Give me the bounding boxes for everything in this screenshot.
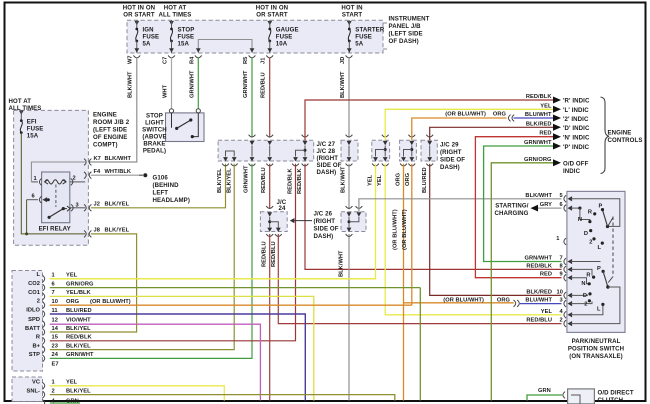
PNP pin 10 BLK/RED [526, 289, 572, 298]
svg-text:RED: RED [539, 131, 551, 137]
label HOT AT ALL TIMES (left) [9, 98, 42, 112]
svg-text:DASH): DASH) [440, 164, 460, 171]
svg-text:12: 12 [52, 318, 58, 324]
svg-text:FUSE: FUSE [178, 34, 195, 41]
svg-text:FUSE: FUSE [143, 34, 160, 41]
wire BLK/RED to D indicator [430, 127, 553, 140]
ECM pin R 15 RED/BLK [36, 335, 93, 345]
svg-text:IDLO: IDLO [26, 307, 40, 313]
internal bridge wire inside J/B [196, 40, 255, 53]
svg-text:STOP: STOP [178, 27, 195, 34]
svg-text:BLK/WHT: BLK/WHT [105, 156, 132, 162]
svg-text:J/C 26: J/C 26 [314, 211, 333, 218]
PNP upper 2 contact [589, 237, 595, 245]
svg-text:WHT/BLK: WHT/BLK [105, 169, 132, 175]
svg-text:11: 11 [52, 308, 58, 314]
arrow O/D OFF INDIC [553, 159, 589, 175]
svg-text:L: L [597, 245, 601, 251]
svg-text:GRN/WHT: GRN/WHT [244, 165, 250, 193]
inline connector (( [508, 115, 514, 122]
label R4 GRN/WHT (vertical) [190, 56, 196, 98]
wire BLK/WHT from starter fuse [348, 58, 350, 138]
svg-text:STARTING/: STARTING/ [495, 202, 528, 209]
PNP internal lower: pin10 to D contact [571, 292, 592, 299]
svg-text:'2' INDIC: '2' INDIC [563, 116, 589, 123]
PNP pin 8 RED/BLK [526, 263, 572, 272]
PNP internal lower: pin9 to N contact [571, 278, 591, 288]
label J8 BLK/YEL [94, 228, 130, 234]
svg-text:N: N [578, 217, 582, 223]
PNP upper lever to P contact [599, 204, 608, 227]
wire BLU/WHT to 2 indicator [514, 117, 554, 119]
svg-text:CO2: CO2 [28, 281, 40, 287]
stop light switch contacts and lever [172, 113, 199, 138]
PNP pin 9 RED [540, 272, 572, 281]
labels RED/BLK RED/BLK (vertical) [288, 168, 304, 194]
svg-text:10: 10 [52, 299, 58, 305]
labels BLK/YEL BLK/YEL (vertical) [217, 168, 233, 193]
svg-text:OF DASH): OF DASH) [389, 38, 419, 45]
svg-text:C7: C7 [163, 57, 169, 64]
svg-text:6: 6 [52, 281, 55, 287]
PNP pin 1 [556, 236, 566, 245]
svg-text:5A: 5A [143, 41, 151, 48]
svg-text:RED/BLU: RED/BLU [262, 241, 268, 267]
label (OR BLU/WHT) ORG with )) connector [443, 297, 519, 306]
label BLK/RED [526, 121, 552, 127]
svg-text:CLUTCH: CLUTCH [598, 397, 624, 404]
wire ORG pair below box D [404, 164, 514, 401]
wire BLK/WHT branch from J/C 26 to PNP pin 5 [359, 199, 562, 212]
ECM pin CO2 6 GRN/ORG [28, 281, 420, 291]
svg-text:RED/BLK: RED/BLK [526, 263, 552, 269]
svg-text:BLK/YEL: BLK/YEL [66, 326, 91, 332]
label W7 BLK/WHT (vertical) [128, 55, 134, 98]
relay pin 6 line [27, 193, 50, 203]
svg-text:D: D [584, 231, 588, 237]
wire BLU/RED below J/C 29 to pin 10 [430, 164, 562, 296]
wire BLK/WHT through J/C 26 down off-page [348, 164, 350, 401]
wire GRN/ORG to O/D OFF indicator [491, 163, 553, 401]
label J1 RED/BLU (vertical) [261, 58, 267, 98]
ECM pin CO1 7 YEL/BLK [28, 290, 314, 401]
svg-text:2: 2 [37, 299, 40, 305]
label J/C 24 [277, 199, 287, 212]
svg-text:1: 1 [52, 380, 55, 386]
svg-text:RED/BLK: RED/BLK [526, 94, 552, 100]
wire BLU/WHT into pin 3 [520, 303, 562, 305]
arrow N INDIC [553, 133, 590, 141]
svg-text:J2: J2 [94, 201, 100, 207]
svg-text:EFI RELAY: EFI RELAY [39, 225, 71, 232]
junction box B (BLK/WHT pass) [341, 135, 358, 166]
svg-text:BLK/WHT: BLK/WHT [340, 71, 346, 98]
wire F4 WHT/BLK to ground G106 [91, 173, 148, 177]
svg-text:W7: W7 [128, 55, 134, 64]
label R5 GRN/WHT (vertical) [243, 57, 249, 98]
J/B2 exit connectors K7 F4 J2 J8 [84, 159, 91, 238]
labels (OR BLU/WHT) x2 (vertical) [393, 209, 409, 250]
svg-text:J/C 27: J/C 27 [317, 141, 336, 148]
label K7 BLK/WHT [94, 156, 132, 162]
wire J8 BLK/YEL to ECM BATT [50, 234, 137, 332]
PNP upper D contact [584, 229, 592, 237]
relay pin 3 [70, 202, 85, 211]
svg-text:(RIGHT: (RIGHT [440, 149, 462, 156]
svg-text:PARK/NEUTRAL: PARK/NEUTRAL [572, 338, 621, 345]
svg-text:RED/BLU: RED/BLU [261, 167, 267, 193]
svg-text:IGN: IGN [143, 27, 154, 34]
wire RED/BLU box A to J/C 24 [269, 164, 271, 209]
svg-text:LEFT: LEFT [153, 190, 169, 197]
svg-text:BLK/WHT: BLK/WHT [128, 71, 134, 98]
svg-text:6: 6 [560, 202, 563, 208]
ECM connector box 1 [12, 271, 43, 372]
svg-text:GRN/ORG: GRN/ORG [524, 157, 552, 163]
label HOT IN ON OR START (left) [123, 5, 155, 19]
PNP pin 4 YEL [541, 309, 572, 318]
label JD BLK/WHT (vertical) [340, 57, 346, 98]
junction box J/C 29 [421, 135, 437, 166]
ECM pin VC 1 YEL [32, 380, 224, 401]
ECM pin IDLO 11 BLU/RED [26, 307, 305, 400]
J/B exit connectors [133, 55, 352, 57]
label BLU/WHT [525, 112, 552, 118]
wire ORG to 2 indicator [412, 118, 507, 140]
J/C 27/28 internal junction dot to RED/BLK pair [296, 149, 307, 157]
wire GRN to O/D direct clutch [527, 388, 572, 400]
wire GRN/WHT R5 down to J/C 27-28 [251, 58, 253, 138]
svg-text:BLU/WHT: BLU/WHT [525, 112, 552, 118]
ECM pin SNL- 2 BLK/YEL [27, 388, 395, 400]
label YEL [540, 103, 552, 109]
label J/C 29 (RIGHT SIDE OF DASH) [440, 142, 465, 172]
svg-text:HEADLAMP): HEADLAMP) [153, 197, 190, 204]
svg-text:FUSE: FUSE [276, 34, 293, 41]
ECM pin STP 24 GRN/WHT [29, 352, 94, 362]
fuse IGN 5A [134, 20, 159, 53]
svg-text:O/D OFF: O/D OFF [563, 160, 589, 167]
svg-text:R4: R4 [190, 56, 196, 64]
svg-text:7: 7 [560, 256, 563, 262]
PNP internal upper: pin6 to N contact [571, 207, 592, 224]
PNP mechanical dashed link [608, 217, 613, 283]
svg-text:J8: J8 [94, 228, 100, 234]
svg-text:BRAKE: BRAKE [143, 140, 165, 147]
svg-text:ENGINE: ENGINE [608, 130, 632, 137]
svg-text:(OR BLU/WHT): (OR BLU/WHT) [90, 299, 131, 305]
svg-text:COMPT): COMPT) [93, 142, 118, 149]
svg-text:(RIGHT: (RIGHT [317, 155, 339, 162]
label RED/BLU (vertical) [261, 167, 267, 193]
svg-text:GRN: GRN [538, 388, 551, 394]
wire J2 BLK/YEL to junction box A [91, 164, 226, 208]
PNP pin 3 BLU/WHT [525, 298, 572, 307]
svg-text:BLK/WHT: BLK/WHT [339, 250, 345, 277]
junction box J/C 27 J/C 28 [218, 140, 314, 161]
label (OR BLU/WHT) ORG [445, 112, 506, 118]
labels ORG ORG (vertical) [396, 172, 412, 186]
svg-text:HOT AT: HOT AT [164, 5, 187, 12]
svg-text:R: R [588, 210, 592, 216]
svg-text:(LEFT SIDE: (LEFT SIDE [389, 31, 423, 38]
svg-text:GRY: GRY [540, 202, 552, 208]
label J2 BLK/YEL [94, 201, 130, 207]
J/C 27/28 internal bridge BLK/YEL [226, 151, 235, 157]
svg-text:'R' INDIC: 'R' INDIC [563, 98, 590, 105]
label ENGINE ROOM J/B 2 (LEFT SIDE OF ENGINE COMPT) [93, 112, 130, 149]
svg-text:WHT: WHT [163, 84, 169, 98]
svg-text:BLU/WHT: BLU/WHT [525, 298, 552, 304]
svg-text:5: 5 [560, 193, 563, 199]
label RED [539, 131, 551, 137]
svg-text:14: 14 [52, 326, 59, 332]
svg-text:BATT: BATT [25, 326, 40, 332]
svg-text:'N' INDIC: 'N' INDIC [563, 135, 590, 142]
svg-text:R: R [36, 335, 40, 341]
svg-text:GRN/ORG: GRN/ORG [66, 281, 94, 287]
stop light switch box [166, 113, 205, 142]
svg-text:BLK/YEL: BLK/YEL [105, 201, 130, 207]
label J/C 27 J/C 28 (RIGHT SIDE OF DASH) [317, 141, 342, 176]
ECM label E2 [52, 361, 59, 367]
svg-text:SIDE OF: SIDE OF [440, 157, 465, 164]
svg-text:7: 7 [52, 290, 55, 296]
svg-text:(OR BLU/WHT): (OR BLU/WHT) [445, 112, 486, 118]
label HOT IN ON OR START (middle) [256, 5, 288, 19]
wire RED/BLK pair below box A [50, 164, 562, 341]
J/C 27/28 internal pass wires [252, 146, 305, 157]
svg-text:YEL: YEL [66, 273, 78, 279]
svg-text:ROOM J/B 2: ROOM J/B 2 [93, 119, 130, 126]
svg-text:DASH): DASH) [317, 169, 337, 176]
svg-text:15A: 15A [178, 41, 190, 48]
relay mechanical dashed link [55, 185, 57, 208]
svg-text:CONTROLS: CONTROLS [608, 137, 643, 144]
svg-text:CHARGING: CHARGING [495, 210, 529, 217]
svg-text:YEL: YEL [368, 174, 374, 186]
svg-text:RED/BLK: RED/BLK [288, 168, 294, 194]
engine room J/B 2 box [14, 110, 89, 245]
svg-text:CO1: CO1 [28, 290, 40, 296]
labels BLK/WHT (vertical, above and below J/C26) [339, 166, 347, 277]
wire GRN/WHT to P indicator [484, 146, 562, 262]
svg-text:GRN/WHT: GRN/WHT [524, 256, 552, 262]
label INSTRUMENT PANEL J/B (LEFT SIDE OF DASH) [383, 16, 430, 50]
svg-text:8: 8 [560, 263, 563, 269]
svg-text:P: P [599, 204, 603, 210]
svg-text:YEL: YEL [540, 103, 552, 109]
svg-text:BLK/WHT: BLK/WHT [341, 166, 347, 193]
PNP pin 7 GRN/WHT [524, 256, 572, 265]
svg-text:VC: VC [32, 380, 40, 386]
label C7 WHT (vertical) [163, 57, 169, 98]
svg-text:DASH): DASH) [314, 233, 334, 240]
EFI relay box [39, 172, 71, 232]
svg-text:INSTRUMENT: INSTRUMENT [389, 16, 430, 23]
svg-text:1: 1 [556, 236, 559, 242]
junction box D (ORG) [400, 135, 417, 166]
svg-text:10: 10 [557, 289, 563, 295]
svg-text:GAUGE: GAUGE [276, 27, 299, 34]
PNP upper R contact [588, 210, 596, 216]
relay pin 2 [70, 176, 85, 186]
svg-text:ORG: ORG [493, 112, 507, 118]
label HOT AT ALL TIMES [159, 5, 192, 19]
svg-text:(OR BLU/WHT): (OR BLU/WHT) [443, 297, 484, 303]
svg-text:OR START: OR START [256, 12, 288, 19]
PNP internal upper: pin5 to lever pivot [571, 199, 620, 228]
svg-text:STP: STP [29, 352, 40, 358]
svg-text:RED/BLU: RED/BLU [526, 318, 552, 324]
svg-text:HOT IN ON: HOT IN ON [123, 5, 155, 12]
svg-text:HOT AT: HOT AT [9, 98, 32, 105]
svg-text:ALL TIMES: ALL TIMES [159, 12, 192, 19]
svg-text:1: 1 [52, 273, 55, 279]
svg-text:(ABOVE: (ABOVE [142, 133, 166, 140]
label F4 WHT/BLK [94, 169, 132, 175]
svg-text:L: L [597, 306, 601, 312]
ECM pin L 1 YEL [36, 272, 375, 282]
svg-text:SNL-: SNL- [27, 388, 41, 394]
svg-text:LIGHT: LIGHT [145, 119, 164, 126]
svg-text:J/C 29: J/C 29 [440, 142, 459, 149]
svg-text:N: N [581, 281, 585, 287]
PNP pin 5 BLK/WHT [525, 193, 572, 202]
arrow L INDIC [553, 106, 589, 114]
svg-text:(BEHIND: (BEHIND [153, 182, 180, 189]
wire GRY starting/charging stub [531, 205, 562, 212]
svg-text:23: 23 [52, 343, 58, 349]
svg-text:2: 2 [52, 388, 55, 394]
arrow R INDIC [553, 97, 590, 105]
svg-text:HOT IN: HOT IN [341, 5, 362, 12]
relay pin 1 [31, 176, 41, 186]
svg-text:J1: J1 [261, 58, 267, 64]
wire GRN/WHT below box A down to ECM STP [50, 164, 252, 359]
wire K7 BLK/WHT inside J/B2 to relay pin1 [31, 162, 86, 182]
fuse STOP 15A [169, 20, 194, 53]
wire YEL pair below box C [50, 164, 562, 315]
ECM connector box 2 [12, 377, 43, 402]
svg-text:J/C 28: J/C 28 [317, 148, 336, 155]
svg-text:E7: E7 [52, 361, 59, 367]
svg-text:P: P [597, 266, 601, 272]
svg-text:OF ENGINE: OF ENGINE [93, 134, 127, 141]
relay pin 6 wire to EFI fuse line [25, 200, 28, 236]
svg-text:BLK/WHT: BLK/WHT [525, 193, 552, 199]
svg-text:BLK/RED: BLK/RED [526, 289, 552, 295]
PNP internal lower: pin8 to R contact [571, 269, 595, 278]
svg-text:2: 2 [560, 318, 563, 324]
svg-text:ENGINE: ENGINE [93, 112, 117, 119]
wire RED to N indicator [475, 137, 561, 278]
svg-text:RED/BLK: RED/BLK [297, 168, 303, 194]
svg-text:1: 1 [34, 176, 37, 182]
svg-text:(OR BLU/WHT): (OR BLU/WHT) [402, 209, 408, 250]
svg-text:GRN/WHT: GRN/WHT [243, 70, 249, 98]
fuse STARTER 5A [347, 20, 385, 53]
svg-text:3: 3 [560, 298, 563, 304]
park/neutral position switch box [567, 191, 625, 332]
svg-text:SWITCH: SWITCH [142, 126, 167, 133]
wire EFI fuse down to J8 row (BLK/YEL inside J/B) [21, 133, 85, 234]
svg-text:STOP: STOP [146, 112, 163, 119]
svg-text:ORG: ORG [66, 299, 80, 305]
J/C 27/28 bottom terminals [222, 157, 308, 166]
PNP internal lower: pin4 to L contact [571, 303, 605, 315]
junction box J/C 26 [341, 206, 366, 236]
J/C 27/28 top terminals [249, 135, 309, 146]
svg-text:YEL: YEL [66, 380, 78, 386]
svg-text:YEL: YEL [541, 309, 553, 315]
svg-text:PEDAL): PEDAL) [143, 147, 166, 154]
fuse GAUGE 10A [267, 20, 298, 53]
svg-text:SIDE OF: SIDE OF [314, 226, 339, 233]
label GRN/ORG [524, 157, 552, 163]
label STOP LIGHT SWITCH (ABOVE BRAKE PEDAL) [142, 112, 167, 154]
svg-text:ORG: ORG [497, 297, 511, 303]
svg-text:BLK/YEL: BLK/YEL [105, 228, 130, 234]
svg-text:POSITION SWITCH: POSITION SWITCH [568, 345, 624, 352]
svg-text:BLU/RED: BLU/RED [422, 167, 428, 193]
arrow P INDIC [553, 143, 590, 151]
engine controls brace [601, 97, 610, 174]
svg-text:(ON TRANSAXLE): (ON TRANSAXLE) [569, 353, 623, 360]
svg-text:'P' INDIC: 'P' INDIC [563, 144, 590, 151]
O/D direct clutch box [568, 389, 595, 404]
svg-text:EFI: EFI [27, 118, 37, 125]
wire GRN/WHT R4 to stop light switch [197, 58, 199, 109]
label ENGINE CONTROLS [608, 130, 643, 145]
svg-text:(LEFT SIDE: (LEFT SIDE [93, 127, 127, 134]
svg-text:GRN/WHT: GRN/WHT [66, 352, 94, 358]
ECM pin BATT 14 BLK/YEL [25, 326, 91, 336]
label GRN/WHT [524, 140, 552, 146]
svg-text:10A: 10A [276, 41, 288, 48]
svg-text:GRN/WHT: GRN/WHT [190, 70, 196, 98]
label GRN/WHT (vertical) [244, 165, 250, 193]
label O/D DIRECT CLUTCH [598, 390, 634, 404]
svg-text:GRN/WHT: GRN/WHT [524, 140, 552, 146]
wire BLK/YEL pair below box A [50, 164, 234, 350]
labels YEL YEL (vertical) [368, 174, 384, 186]
svg-text:O/D DIRECT: O/D DIRECT [598, 390, 634, 397]
wire RED/BLK to R indicator [305, 100, 553, 140]
svg-text:FUSE: FUSE [27, 125, 44, 132]
label PARK/NEUTRAL POSITION SWITCH (ON TRANSAXLE) [568, 338, 624, 360]
svg-text:BLK/YEL: BLK/YEL [66, 388, 91, 394]
svg-text:K7: K7 [94, 156, 101, 162]
svg-text:ORG: ORG [405, 172, 411, 186]
label BLU/RED (vertical) [422, 167, 428, 193]
PNP lower P contact and lever [597, 266, 610, 289]
svg-text:(RIGHT: (RIGHT [314, 218, 336, 225]
svg-text:D: D [583, 293, 587, 299]
svg-text:SIDE OF: SIDE OF [317, 162, 342, 169]
svg-text:5A: 5A [355, 41, 363, 48]
label G106 (BEHIND LEFT HEADLAMP) [153, 175, 190, 205]
svg-text:RED: RED [540, 272, 552, 278]
junction box C (YEL) [372, 135, 390, 166]
stop light switch terminals [169, 109, 200, 113]
svg-text:RED/BLU: RED/BLU [261, 72, 267, 98]
ECM pin SPD 12 VIO/WHT [28, 317, 260, 400]
wire RED/BLU pair below J/C 24 [270, 234, 562, 401]
labels RED/BLU RED/BLU (vertical) [262, 241, 278, 267]
svg-text:24: 24 [52, 352, 59, 358]
wire BLK/WHT from IGN fuse [88, 58, 136, 163]
